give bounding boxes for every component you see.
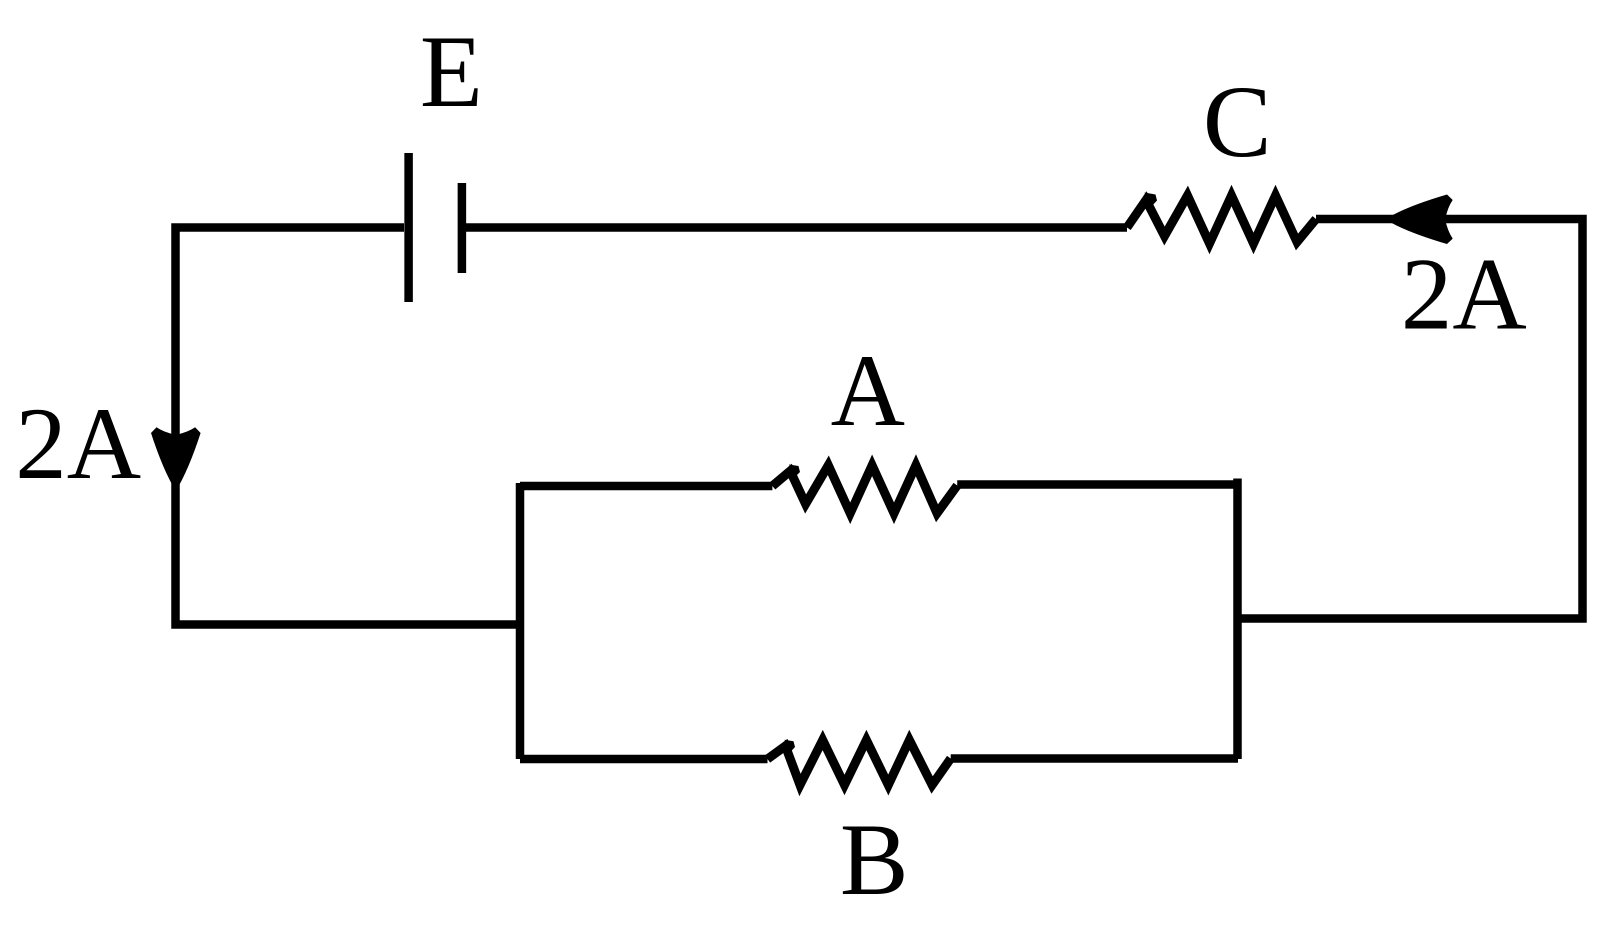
- arrow on left vertical wire pointing down: [151, 427, 201, 491]
- battery E short plate: [458, 183, 467, 273]
- svg-text:A: A: [831, 334, 905, 448]
- arrow on top-right wire pointing left, current into node: [1385, 195, 1453, 245]
- wire: top horizontal from battery to resistor C: [462, 223, 1127, 232]
- svg-text:2A: 2A: [1401, 238, 1527, 352]
- svg-text:2A: 2A: [15, 387, 141, 501]
- resistor B: [768, 740, 951, 785]
- wire: parallel box left vertical: [516, 483, 525, 759]
- wire: box top-right lead from resistor A: [957, 480, 1234, 489]
- battery E long plate: [404, 153, 413, 302]
- wire: top-right horizontal, right vertical, mid-right horizontal: [1238, 219, 1583, 619]
- svg-text:B: B: [840, 803, 909, 917]
- wire: top-left horizontal, left vertical, bottom-left horizontal: [176, 228, 521, 625]
- wire: box bottom-left lead to resistor B: [520, 755, 768, 764]
- resistor C: [1127, 196, 1316, 244]
- wire: box bottom-right lead from resistor B: [951, 754, 1238, 763]
- resistor A: [772, 465, 957, 513]
- svg-text:C: C: [1203, 65, 1272, 179]
- svg-text:E: E: [420, 15, 483, 129]
- wire: parallel box right vertical: [1233, 479, 1242, 760]
- wire: box top-left lead to resistor A: [520, 482, 772, 491]
